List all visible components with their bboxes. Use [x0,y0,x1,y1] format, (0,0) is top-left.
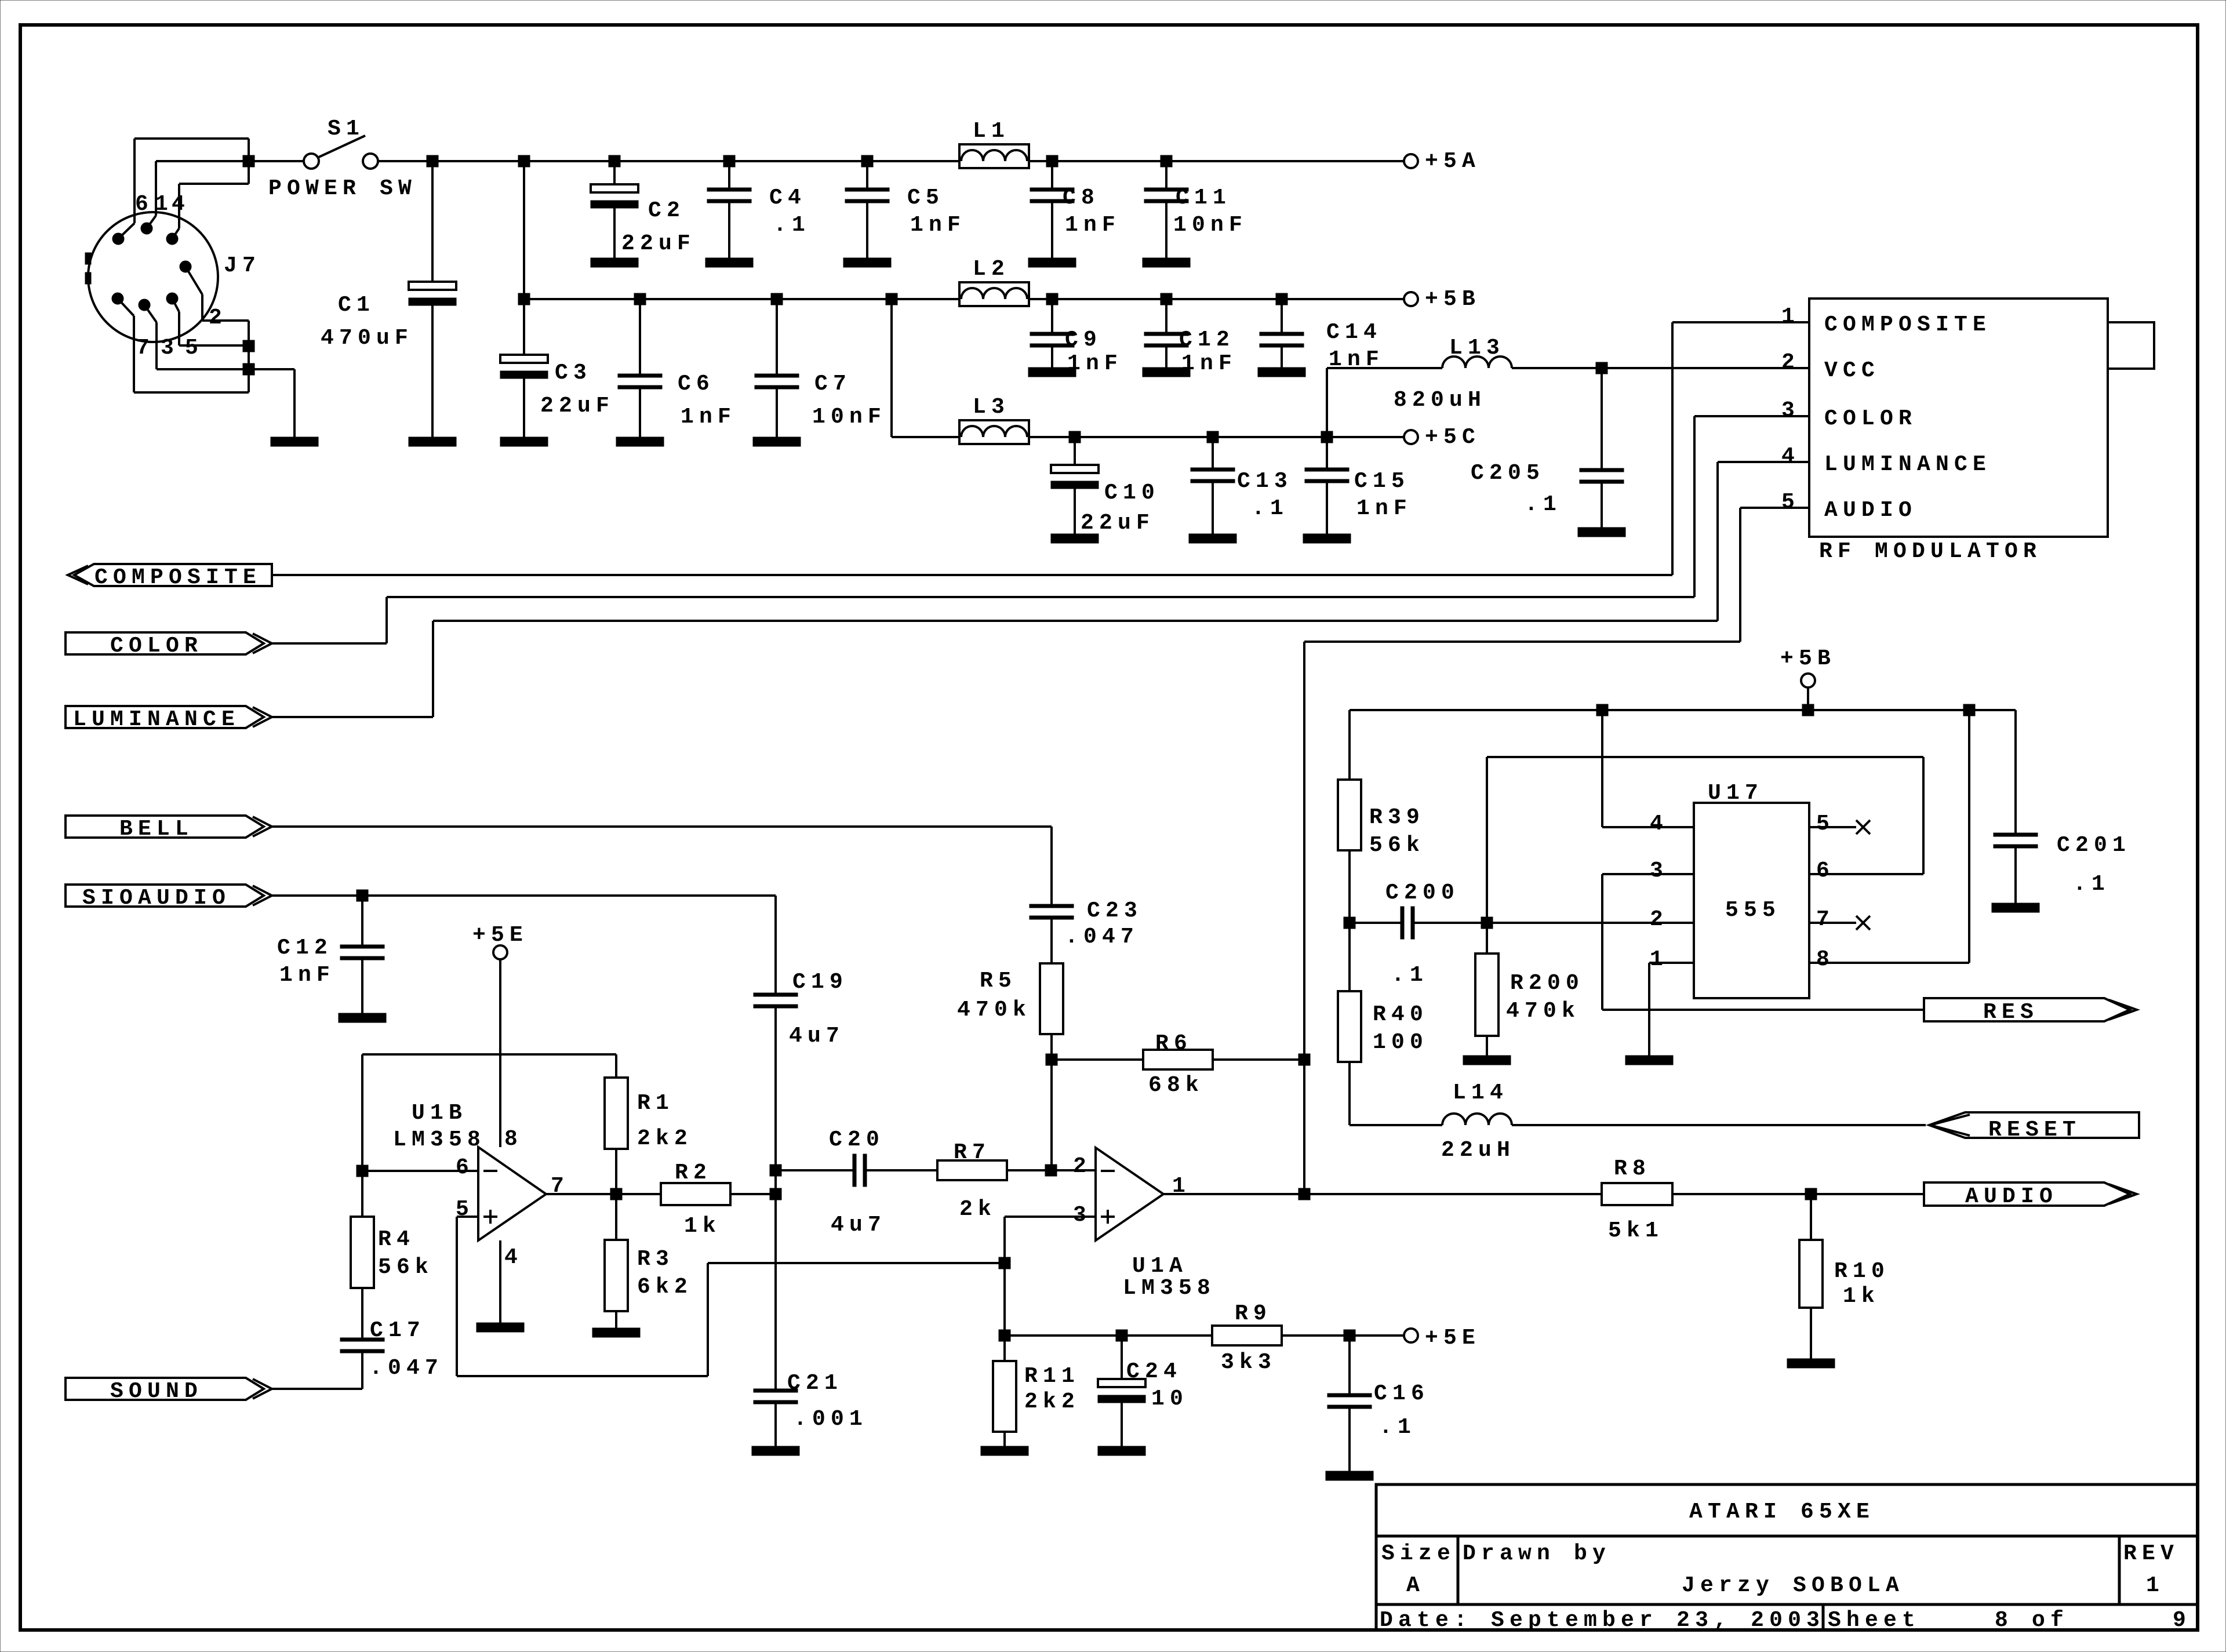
capacitor C23 .047 [1030,904,1074,908]
wire 555 pin3 to RES [1601,874,1603,1010]
svg-text:1: 1 [1650,947,1668,972]
node C7 junction [771,293,783,305]
wire feedback top [362,1053,616,1056]
node rail A to rail B junction [518,155,530,167]
svg-text:9: 9 [2173,1608,2191,1633]
svg-text:3: 3 [1650,858,1668,883]
svg-text:100: 100 [1373,1030,1428,1055]
wire U1B pin5 route [457,1216,478,1218]
svg-text:1nF: 1nF [910,213,966,238]
capacitor C19 4u7 [754,993,798,996]
ground 555 pin1 [1625,1056,1673,1065]
capacitor C24 10 [1121,1336,1123,1379]
node C15 junction [1321,431,1333,443]
resistor R6 68k [1143,1050,1213,1069]
wire rail B to +5B terminal [1052,298,1404,300]
svg-text:68k: 68k [1148,1073,1204,1098]
tag COLOR [66,632,264,654]
node C1 junction [427,155,438,167]
555 pin 4 [1601,710,1603,827]
svg-text:1: 1 [1781,304,1800,329]
node pin3 junction [999,1257,1010,1269]
tag RES [1924,998,2130,1021]
svg-text:470k: 470k [1506,999,1580,1024]
node rail B left junction [518,293,530,305]
capacitor C12 1nF [1165,299,1167,332]
svg-text:AUDIO: AUDIO [1824,498,1917,523]
svg-text:2: 2 [1781,350,1800,375]
svg-text:R2: R2 [675,1160,712,1185]
resistor R4 56k [361,1171,363,1217]
node C9 junction [1046,293,1058,305]
wire +5E to U1B pin8 [499,959,501,1147]
terminal +5B mid [1801,674,1815,687]
svg-text:A: A [1406,1573,1425,1598]
capacitor C12 1nF (sio) [361,896,363,945]
svg-text:LUMINANCE: LUMINANCE [1824,452,1991,477]
svg-text:R4: R4 [378,1227,415,1252]
svg-text:.1: .1 [1525,492,1562,517]
svg-text:C11: C11 [1176,185,1231,210]
svg-text:820uH: 820uH [1394,388,1486,413]
svg-text:U1A: U1A [1132,1254,1188,1279]
ground C16 [1326,1471,1373,1480]
capacitor C17 .047 [361,1288,363,1338]
op-amp U1A [1096,1148,1163,1240]
tag LUMINANCE [66,706,264,728]
svg-text:L2: L2 [973,257,1010,282]
ground C6 [616,437,664,446]
svg-text:C17: C17 [370,1318,425,1343]
RF pin 5 AUDIO [1740,507,1809,509]
node J7 ground junction B [243,363,254,375]
svg-text:+5B: +5B [1425,287,1481,312]
node C24 junction [1116,1330,1127,1341]
svg-text:U1B: U1B [412,1101,467,1126]
wire rf audio drop [1739,508,1741,642]
tag RESET [1929,1112,2139,1138]
svg-text:Jerzy SOBOLA: Jerzy SOBOLA [1682,1573,1904,1598]
wire J7 pin6 to power node [118,223,134,239]
svg-text:LUMINANCE: LUMINANCE [73,707,240,732]
wire J7 pin7 to ground node [118,299,134,316]
svg-text:Date: September 23, 2003: Date: September 23, 2003 [1380,1608,1825,1633]
ground C14 [1258,367,1305,377]
wire R11 node to C24 node [1005,1334,1212,1337]
svg-text:COLOR: COLOR [1824,406,1917,431]
svg-text:LM358: LM358 [393,1127,486,1152]
resistor R10 1k [1810,1194,1812,1240]
svg-text:+5A: +5A [1425,149,1481,174]
svg-text:555: 555 [1725,898,1781,923]
svg-text:R39: R39 [1369,805,1425,830]
wire rail C to +5C terminal [1327,436,1404,438]
svg-text:C4: C4 [769,185,806,210]
wire 555 pin6 to pin2 node [1922,757,1925,874]
svg-text:4u7: 4u7 [789,1024,845,1049]
svg-text:4: 4 [1650,812,1668,836]
svg-text:5k1: 5k1 [1608,1218,1664,1243]
svg-text:5: 5 [1816,812,1835,836]
svg-text:C14: C14 [1326,320,1382,345]
svg-text:5: 5 [1781,490,1800,515]
svg-text:COMPOSITE: COMPOSITE [1824,312,1991,337]
ground C12 [1143,367,1190,377]
svg-text:C8: C8 [1063,185,1100,210]
RF pin 3 COLOR [1694,415,1809,417]
svg-text:7: 7 [136,336,155,361]
wire pin3 node to R11 [1003,1263,1006,1336]
svg-text:C12: C12 [1179,328,1235,352]
ground U1B pin4 [477,1323,524,1332]
ground R10 [1787,1359,1835,1368]
svg-text:8: 8 [1816,947,1835,972]
capacitor C2 22uF [613,161,616,184]
wire R3 to ground [615,1311,617,1328]
resistor R11 2k2 [1003,1336,1006,1361]
svg-text:6k2: 6k2 [637,1275,693,1300]
wire C19 to C20 node [774,1008,777,1170]
terminal +5A [1404,154,1418,168]
capacitor C20 4u7 [776,1169,853,1171]
wire junction to R6 [1052,1058,1143,1061]
tag SOUND [66,1378,264,1400]
svg-text:R10: R10 [1834,1259,1890,1284]
node C205 junction [1596,362,1607,374]
svg-text:1: 1 [155,192,173,217]
wire rail B to rail C [890,299,893,437]
svg-text:POWER SW: POWER SW [268,176,417,201]
RF pin 1 COMPOSITE [1672,321,1809,323]
wire audio bus vertical [1303,642,1305,1194]
svg-text:.1: .1 [1379,1415,1416,1440]
node C200 left junction [1344,917,1355,929]
wire down to C21 [774,1194,777,1389]
wire rail A to rail B [523,161,525,299]
capacitor C4 .1 [728,161,730,188]
node R5 R6 junction [1046,1054,1057,1065]
svg-text:7: 7 [1816,907,1835,932]
node C20 line junction [770,1165,781,1176]
ground R3 [592,1328,640,1337]
capacitor C205 .1 [1601,368,1603,468]
svg-text:4u7: 4u7 [831,1213,886,1238]
node C2 junction [609,155,620,167]
svg-text:+5E: +5E [1425,1326,1481,1351]
svg-text:C2: C2 [648,198,685,223]
svg-text:REV: REV [2123,1541,2179,1566]
wire S1 to +5A rail [378,160,959,162]
svg-text:10nF: 10nF [812,405,886,430]
svg-text:COMPOSITE: COMPOSITE [94,565,261,590]
resistor R3 6k2 [605,1240,628,1311]
resistor R8 5k1 [1602,1183,1672,1205]
wire R9 to +5E [1282,1334,1404,1337]
svg-text:SOUND: SOUND [110,1379,203,1404]
svg-text:1: 1 [2146,1573,2165,1598]
wire LUMINANCE to RF pin4 [271,716,433,718]
RF modulator box [1809,299,2108,537]
ground C10 [1051,534,1099,543]
svg-text:R200: R200 [1510,971,1584,996]
svg-text:6: 6 [1816,858,1835,883]
svg-text:C6: C6 [678,372,715,396]
resistor R2 1k [661,1183,730,1205]
svg-text:C13: C13 [1237,469,1293,494]
svg-text:10nF: 10nF [1173,213,1247,238]
wire U1A pin3 route [1005,1216,1096,1218]
ground C9 [1028,367,1076,377]
svg-text:R8: R8 [1614,1156,1651,1181]
node C10 junction [1069,431,1081,443]
inductor L13 820uH [1327,367,1442,369]
ground C13 [1189,534,1236,543]
node R200 junction [1481,917,1493,929]
svg-text:RF MODULATOR: RF MODULATOR [1819,539,2042,564]
svg-text:C23: C23 [1087,898,1143,923]
capacitor C1 470uF [431,161,434,282]
ground C8 [1028,258,1076,267]
wire C200 node to 555 pin2 [1487,922,1694,924]
node 555 rail pin4 junction [1596,704,1608,716]
wire U1A output [1163,1193,1602,1195]
wire R5 to R6 node [1050,1034,1053,1060]
svg-text:2: 2 [1650,907,1668,932]
svg-text:6: 6 [456,1155,474,1180]
svg-text:1nF: 1nF [1065,213,1121,238]
switch S1 [304,154,319,169]
wire feedback vertical [361,1054,363,1171]
resistor R39 56k [1348,710,1351,780]
svg-text:ATARI 65XE: ATARI 65XE [1689,1500,1875,1524]
capacitor C16 .1 [1348,1336,1351,1393]
wire +5B rail left segment [524,298,959,300]
svg-text:470k: 470k [957,998,1031,1023]
ground C4 [705,258,753,267]
svg-text:J7: J7 [224,253,261,278]
svg-text:COLOR: COLOR [110,634,203,658]
svg-text:2k2: 2k2 [637,1126,693,1151]
node audio bus R6 junction [1298,1054,1310,1065]
svg-text:5: 5 [185,336,203,361]
555 pin 7 no connect [1809,922,1856,924]
wire COMPOSITE to RF pin1 [272,574,1672,576]
ground C201 [1992,903,2039,912]
svg-text:C200: C200 [1385,880,1460,905]
resistor R7 2k [937,1160,1007,1180]
capacitor C13 .1 [1212,437,1214,468]
capacitor C10 22uF [1074,437,1076,465]
wire color drop [1693,416,1696,597]
svg-text:R3: R3 [637,1247,674,1272]
svg-text:3k3: 3k3 [1221,1350,1276,1375]
node R2 line junction [770,1188,781,1200]
svg-text:C1: C1 [338,293,375,318]
svg-text:56k: 56k [378,1255,434,1280]
svg-text:.001: .001 [794,1407,868,1432]
terminal +5E right [1404,1329,1418,1342]
svg-text:C3: C3 [555,361,592,385]
tag AUDIO [1924,1182,2130,1206]
svg-text:4: 4 [504,1245,523,1270]
svg-text:1nF: 1nF [681,405,736,430]
svg-text:C7: C7 [814,372,852,396]
node C12a junction [357,890,368,901]
wire rail C right segment [1075,436,1327,438]
capacitor C5 1nF [866,161,868,188]
wire to R1 top [615,1054,617,1078]
svg-text:10: 10 [1151,1387,1188,1411]
RF pin 4 LUMINANCE [1718,461,1809,463]
svg-text:C20: C20 [829,1127,885,1152]
svg-text:+5E: +5E [472,923,528,948]
svg-text:C205: C205 [1471,461,1545,486]
capacitor C200 .1 [1350,922,1401,924]
svg-text:Sheet: Sheet [1828,1608,1921,1633]
svg-text:.047: .047 [1065,925,1139,949]
wire R3 drop [615,1194,617,1240]
ground C15 [1303,534,1351,543]
terminal +5C [1404,430,1418,444]
terminal +5B [1404,292,1418,306]
svg-text:R9: R9 [1235,1301,1272,1326]
node C13 junction [1207,431,1219,443]
svg-text:LM358: LM358 [1123,1276,1216,1301]
capacitor C7 10nF [776,299,778,374]
555 pin 5 no connect [1809,826,1856,828]
svg-text:+5C: +5C [1425,425,1481,450]
capacitor C8 1nF [1051,161,1053,188]
wire C23 to R5 [1050,919,1053,963]
capacitor C201 .1 [2014,710,2017,833]
wire J7 pin5 to ground node [172,299,179,312]
node R10 junction [1805,1188,1817,1200]
node U1B inverting input [357,1165,368,1177]
ground C21 [752,1446,799,1455]
svg-text:4: 4 [1781,444,1800,469]
wire R7 to U1A pin2 [1007,1169,1096,1171]
wire 555 pin1 ground [1648,963,1650,1056]
svg-text:+5B: +5B [1780,646,1836,671]
svg-text:1k: 1k [1843,1284,1880,1309]
node C14 junction [1276,293,1287,305]
wire R5 node to U1A pin2 node [1050,1060,1053,1170]
svg-text:L1: L1 [973,119,1010,144]
connector J7 DIN socket [88,212,218,342]
ground C12 sio [339,1013,386,1023]
node C11 junction [1161,155,1172,167]
node U1A inverting junction [1045,1165,1057,1176]
inductor L2 [959,282,1029,306]
timer U17 555 box [1694,803,1809,998]
svg-text:56k: 56k [1369,833,1425,858]
svg-text:L14: L14 [1453,1080,1508,1105]
svg-text:C19: C19 [792,970,848,995]
resistor R1 2k2 [605,1078,628,1149]
node 555 rail +5B junction [1802,704,1814,716]
svg-text:22uF: 22uF [621,231,696,256]
ground C3 [500,437,548,446]
wire J7 pin1 to power node [147,216,156,228]
ground C205 [1578,527,1625,537]
resistor R200 470k [1486,923,1488,954]
wire L1 to +5A terminal [1029,160,1404,162]
node C4 junction [723,155,735,167]
capacitor C3 22uF [523,299,525,355]
wire L2 to C9 [1029,298,1052,300]
svg-text:C5: C5 [907,185,944,210]
ground C2 [591,258,638,267]
op-amp U1B [478,1147,546,1240]
tag SIOAUDIO [66,885,264,907]
svg-text:1nF: 1nF [279,963,335,988]
wire C17 to SOUND [361,1353,363,1355]
svg-text:R6: R6 [1155,1031,1192,1056]
ground C24 [1098,1446,1145,1455]
svg-text:470uF: 470uF [321,326,413,351]
wire L1 to C8 [1029,160,1052,162]
svg-text:C9: C9 [1065,328,1102,352]
wire SIOAUDIO to C19 [271,894,776,897]
svg-text:3: 3 [1073,1203,1092,1228]
svg-text:C16: C16 [1374,1381,1430,1406]
svg-text:3: 3 [1781,398,1800,423]
555 pin 3 [1602,873,1694,875]
wire J7 pin2 to ground node [185,267,202,294]
ground J7 [271,437,318,446]
wire BELL to C23 [271,825,1052,828]
wire L3 to C10 [1029,436,1075,438]
svg-text:.1: .1 [1391,963,1428,988]
svg-text:22uH: 22uH [1441,1138,1515,1163]
wire composite drop [1671,322,1674,575]
wire R6 to audio bus [1213,1058,1304,1061]
svg-text:RESET: RESET [1988,1118,2081,1142]
tag COMPOSITE [74,564,272,586]
title block frame [1376,1484,2198,1630]
svg-text:Size: Size [1381,1541,1456,1566]
wire R8 to AUDIO tag [1672,1193,1925,1195]
svg-text:L3: L3 [973,395,1010,420]
ground R11 [981,1446,1028,1455]
svg-text:C21: C21 [787,1371,843,1396]
svg-text:VCC: VCC [1824,358,1880,383]
svg-text:5: 5 [456,1197,474,1222]
ground C11 [1143,258,1190,267]
node C8 junction [1046,155,1058,167]
wire +5C to L13 [1326,368,1328,437]
resistor R9 3k3 [1212,1326,1282,1345]
wire +5B rail 555 [1350,709,2016,711]
wire U1B pin4 ground [499,1240,501,1323]
tag BELL [66,816,264,838]
svg-text:C24: C24 [1126,1359,1182,1384]
node J7 ground junction A [243,340,254,352]
wire U1B output [546,1193,661,1195]
capacitor C9 1nF [1051,299,1053,332]
555 pin 8 [1809,962,1969,964]
svg-text:RES: RES [1983,1000,2039,1025]
wire J7 ground stub [249,368,294,370]
node audio bus output junction [1298,1188,1310,1200]
svg-text:R40: R40 [1373,1002,1428,1027]
ground R200 [1463,1056,1511,1065]
svg-text:R1: R1 [637,1091,674,1116]
J7 notch marks [85,253,91,264]
terminal +5E left [493,945,507,959]
node U1B output junction [610,1188,622,1200]
svg-text:R5: R5 [980,969,1017,994]
